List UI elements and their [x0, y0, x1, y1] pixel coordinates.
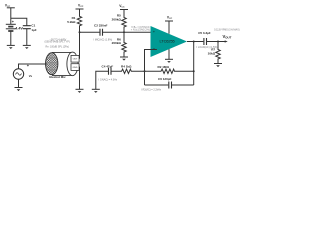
svg-text:VCC: VCC: [119, 4, 125, 9]
capacitor C2 330nF: [80, 23, 125, 41]
ground (C4): [92, 89, 100, 93]
power flag VCC (op-amp): [165, 16, 173, 34]
svg-text:C2 330nF: C2 330nF: [94, 23, 108, 27]
power flag VCC (divider): [119, 4, 128, 10]
pin OUT: [71, 55, 79, 62]
svg-text:200kΩ: 200kΩ: [112, 41, 122, 45]
op-amp U1 LTC6255: [151, 26, 188, 57]
svg-text:I R2(AC) = 2.2kHz: I R2(AC) = 2.2kHz: [141, 89, 162, 92]
node (feedback join): [144, 70, 146, 72]
svg-text:VOUT: VOUT: [223, 34, 232, 39]
capacitor C4 47uF: [96, 65, 118, 89]
svg-text:Re: 100dB SPL (2Pa): Re: 100dB SPL (2Pa): [46, 45, 70, 48]
wire output: [187, 41, 227, 43]
source Vs (acoustic): [13, 63, 32, 79]
electret microphone MK1: [46, 52, 80, 79]
svg-text:1µF: 1µF: [31, 28, 36, 32]
svg-text:VS: VS: [29, 74, 33, 78]
node (R2 right): [193, 70, 195, 72]
svg-text:VCC: VCC: [5, 3, 11, 8]
wire battery rail to C1: [11, 18, 27, 25]
svg-text:R4 1kΩ: R4 1kΩ: [121, 65, 132, 69]
ground (R7): [214, 64, 222, 68]
note: bias voltage annotation: [131, 26, 150, 32]
svg-text:GND: GND: [73, 67, 78, 69]
power flag VCC (mic bias): [76, 4, 84, 10]
arrow output end: [225, 40, 228, 42]
ground (source): [15, 88, 23, 92]
node (output): [193, 41, 195, 43]
pin GND: [71, 64, 79, 71]
capacitor C5 3.3uF: [197, 31, 218, 49]
node (bias): [123, 31, 125, 33]
wire mic GND lead: [78, 67, 80, 89]
svg-text:R2 1MΩ: R2 1MΩ: [158, 65, 170, 69]
resistor R5 200k: [112, 10, 127, 33]
node (R7 tap): [217, 41, 219, 43]
ground (op-amp): [165, 59, 173, 63]
wire to +IN: [124, 31, 152, 33]
svg-text:+: +: [12, 20, 15, 24]
capacitor C6 120pF: [141, 77, 194, 92]
svg-text:C4 47µF: C4 47µF: [102, 65, 114, 69]
resistor R7 10k: [208, 42, 221, 64]
ground (divider): [120, 57, 128, 61]
svg-text:(SENS 94dB SPL TYP): (SENS 94dB SPL TYP): [45, 41, 70, 44]
svg-text:OUT: OUT: [73, 59, 78, 61]
battery BT1 4.4V: [6, 20, 24, 45]
svg-text:Electret Mic: Electret Mic: [49, 75, 66, 79]
svg-text:4.4V: 4.4V: [15, 27, 23, 31]
svg-text:C6 120pF: C6 120pF: [158, 77, 172, 81]
capacitor C1 1uF: [23, 24, 37, 46]
svg-text:0.113V RMS (1% MAX): 0.113V RMS (1% MAX): [214, 28, 240, 31]
resistor R4 1k: [112, 65, 145, 74]
svg-text:5.9kΩ: 5.9kΩ: [67, 20, 76, 24]
svg-text:VCC: VCC: [167, 16, 173, 21]
wire source to mic: [19, 64, 47, 69]
svg-text:10kΩ: 10kΩ: [208, 51, 216, 55]
svg-text:200kΩ: 200kΩ: [112, 17, 122, 21]
node (mic out / C2): [79, 31, 81, 33]
ground (C1): [23, 45, 31, 49]
power flag VCC (battery): [5, 3, 15, 24]
ground (battery): [7, 45, 15, 49]
svg-text:C1: C1: [31, 24, 35, 28]
svg-text:LTC6255: LTC6255: [160, 38, 176, 43]
svg-text:C5 3.3µF: C5 3.3µF: [198, 31, 211, 35]
wire output feedback column: [193, 42, 195, 86]
label VOUT: [214, 28, 240, 39]
resistor R6 200k: [112, 32, 127, 57]
ground (mic): [76, 89, 84, 93]
resistor R2 1M: [145, 65, 194, 73]
wire -IN: [145, 50, 157, 86]
wire source to ground: [18, 79, 20, 87]
svg-text:I C4(AC) = 4.3Hz: I C4(AC) = 4.3Hz: [99, 78, 118, 81]
svg-text:I MIC(AC) (1.8%): I MIC(AC) (1.8%): [94, 39, 113, 42]
note: mic sensitivity annotation: [45, 38, 70, 48]
svg-text:+ N (±1.5%) (2%): + N (±1.5%) (2%): [131, 29, 150, 32]
wire mic OUT lead: [78, 58, 80, 60]
wire op-amp V- pin: [168, 49, 170, 59]
svg-text:VCC: VCC: [78, 4, 84, 9]
resistor R1 5.9k: [67, 9, 81, 59]
